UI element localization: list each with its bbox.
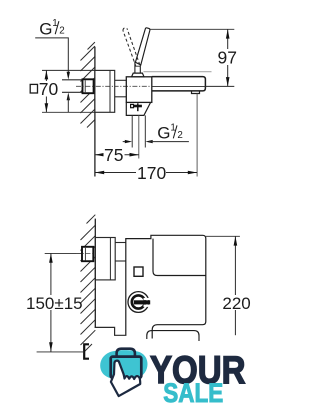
dimension 97: extension lines (149, 28, 234, 30)
svg-text:75: 75 (104, 145, 123, 165)
neck between escutcheon and body (side view) (115, 79, 127, 81)
svg-text:150±15: 150±15 (26, 294, 83, 313)
dimension 170: text (136, 165, 166, 181)
dimension square-70: extension lines (42, 69, 95, 71)
aerator tab under spout end (192, 91, 200, 94)
svg-text:G: G (157, 124, 170, 143)
dimension 220: top extension line (206, 235, 240, 237)
supply pipe stub behind wall (62, 79, 83, 81)
supply line / 150 top extension (45, 252, 82, 254)
svg-text:G: G (39, 19, 52, 38)
outlet block below body with chamfer (126, 102, 150, 115)
svg-text:2: 2 (59, 26, 64, 37)
dimension G1/2 bottom: arrows pointing at outlet (123, 141, 127, 143)
lever stem (135, 62, 140, 73)
svg-text:170: 170 (137, 163, 166, 183)
GROHE emblem: G bar (134, 300, 150, 304)
svg-text:SALE: SALE (163, 378, 223, 408)
wall hatching (side view, top drawing) (81, 42, 95, 127)
escutcheon plate (side view) (95, 70, 115, 112)
logo bag body (111, 357, 142, 378)
mixer body (side view) (126, 77, 152, 103)
dimension 150±15: dim line with arrows (50, 253, 52, 351)
dimension square-70: dim line with arrows (45, 70, 47, 112)
svg-text:70: 70 (39, 79, 59, 99)
logo hand pointer (111, 361, 140, 396)
logo bag handle (117, 349, 135, 357)
escutcheon inner line (109, 70, 111, 112)
arrow up to pipe bottom, with shaft below (67, 93, 70, 101)
wall step and shelf at bottom (95, 327, 127, 335)
svg-text:97: 97 (218, 48, 237, 68)
lever closed position faint line (144, 71, 212, 73)
aerator centerline extension (right ext of 170) (196, 94, 198, 177)
svg-text:220: 220 (222, 294, 250, 313)
dimension 220: text (221, 295, 250, 310)
GROHE emblem: bold inner ring (132, 295, 145, 308)
wall face line (bottom drawing) (94, 219, 96, 328)
escutcheon inner line (bottom) (109, 238, 111, 280)
spout inner line (152, 85, 206, 87)
dimension square-70: text with square symbol (39, 81, 56, 97)
outlet OD extension lines below body (131, 115, 133, 147)
lever blade (solid, open position) (135, 28, 150, 65)
escutcheon plate (bottom drawing) (95, 238, 115, 280)
spout (side view) (152, 77, 206, 91)
arrow down to pipe top (67, 72, 70, 80)
bottom ext line for 150 dim (37, 351, 83, 353)
G1/2 wall union square (top drawing, bold) (83, 79, 94, 93)
logo teal blob (100, 350, 147, 380)
dimension 75: text (104, 147, 125, 163)
lever mount trapezoid on body top (132, 73, 144, 77)
wall hatching (bottom drawing) (81, 215, 96, 352)
dimension 170: dim line with arrows (95, 172, 197, 174)
outlet centerline extension (right ext of 75) (138, 115, 140, 158)
label G 1/2 (bottom) (157, 122, 183, 142)
svg-text:2: 2 (177, 130, 182, 141)
neck (bottom drawing) (115, 242, 126, 244)
lever blade ghost (dashed position) (123, 28, 140, 67)
spout slab bottom edge (bottom drawing) (153, 239, 206, 276)
GROHE emblem: outer circle (128, 292, 149, 313)
supply centerline dash-dot through nut (76, 252, 95, 254)
dimension 97: text (217, 49, 238, 65)
outlet nipple cross detail (bold) (134, 105, 142, 108)
small square detail on body (134, 267, 143, 276)
supply union nut (bottom drawing, bold) (82, 247, 93, 261)
centerline of supply (dash-dot, top drawing) (76, 85, 151, 87)
dimension: G1/2 top label leader (35, 38, 68, 76)
wall face line (top drawing), also left extension line for 75/170 (94, 47, 96, 177)
dimension 220: dim line (bottom hidden behind logo) (234, 236, 236, 335)
dimension 150±15: text (25, 295, 75, 310)
GROHE emblem: white gaps around G bar (144, 298, 152, 300)
dimension 75: dim line with arrows (95, 154, 139, 156)
dimension 97: dim line with arrows (227, 29, 229, 86)
tub rim line (147, 331, 199, 341)
body outline (bottom drawing) (126, 235, 206, 338)
hose wall elbow bracket (bold) (84, 344, 89, 358)
label G 1/2 (top) (39, 18, 64, 38)
